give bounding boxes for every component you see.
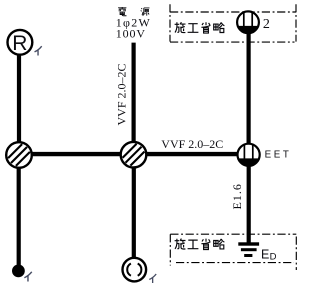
outlet (2) in top box [237,11,259,33]
label 施工省略 (bottom box) [175,239,225,250]
svg-text:VVF 2.0–2C: VVF 2.0–2C [161,137,223,151]
label イ (rosette) [149,274,156,283]
wire: power feed down to middle joint box [132,43,136,155]
svg-text:2: 2 [263,17,270,32]
joint box B (middle, hatched) [121,142,147,168]
power source label 電源 1φ2W 100V [116,7,151,41]
svg-text:VVF 2.0–2C: VVF 2.0–2C [115,63,129,125]
ceiling rosette (round) [123,258,147,282]
earth electrode ED (ground symbol) [238,242,259,257]
wire: lamp receptacle R down to left joint box [17,44,21,155]
label イ (lamp receptacle) [35,46,42,55]
svg-text:R: R [12,32,27,55]
wire: horizontal bus left joint box - middle joint box - EET [19,152,249,156]
svg-text:E1.6: E1.6 [230,183,244,209]
label 施工省略 (top box) [175,22,225,33]
wire: left joint box down to switch イ [17,155,21,266]
wire: EET down to earth electrode ED [247,155,251,244]
lamp receptacle R [8,30,33,55]
outlet EET (grounding electrode + terminal) [238,144,260,166]
dashed box 施工省略 (top right) [170,4,296,42]
dashed box 施工省略 (bottom right) [170,234,296,270]
svg-text:E: E [261,247,269,261]
switch イ (single pole) [12,265,25,278]
joint box A (left, hatched) [6,142,32,168]
wire: outlet 2 down to EET outlet [247,24,251,155]
wire: middle joint box down to ceiling rosette [132,155,136,260]
svg-text:EET: EET [265,150,292,161]
label イ (switch) [24,272,31,282]
svg-text:D: D [270,251,277,262]
svg-text:100V: 100V [116,27,146,41]
